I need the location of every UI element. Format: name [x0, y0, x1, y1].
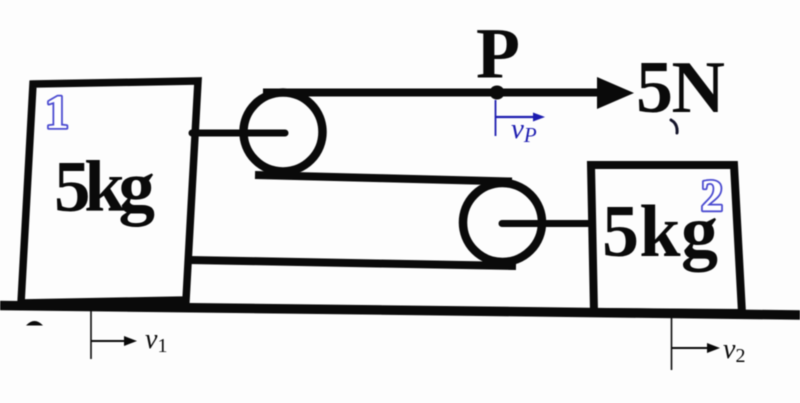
velocity marker vP (blue) — [495, 100, 497, 136]
svg-text:5N: 5N — [636, 47, 725, 129]
ground line — [0, 306, 800, 316]
ground blob mark — [26, 321, 43, 326]
pulley 1 — [244, 93, 323, 172]
wire: rope from block 1 to pulley 1 axle — [192, 130, 285, 137]
svg-text:1: 1 — [45, 86, 69, 139]
block 1 (5kg left) — [21, 81, 198, 303]
force arrowhead 5N — [597, 77, 634, 109]
wire: middle rope pulley 1 bottom to pulley 2 top — [255, 175, 512, 182]
node P dot — [490, 86, 505, 100]
comma mark below 5N — [671, 120, 677, 133]
block 2 (5kg right) — [591, 165, 742, 313]
wire: bottom rope from block 1 to pulley 2 bottom — [189, 260, 516, 266]
wire: top rope from pulley 1 to force arrow — [263, 89, 604, 97]
velocity marker v1 — [90, 311, 92, 359]
pulley 2 — [463, 183, 542, 262]
velocity marker v2 — [671, 317, 673, 370]
wire: rope from pulley 2 axle to block 2 — [502, 220, 596, 227]
svg-text:2: 2 — [701, 171, 723, 220]
svg-text:P: P — [476, 14, 520, 94]
svg-text:5kg: 5kg — [54, 146, 155, 227]
svg-text:v2: v2 — [723, 334, 745, 367]
svg-text:v1: v1 — [145, 324, 167, 357]
